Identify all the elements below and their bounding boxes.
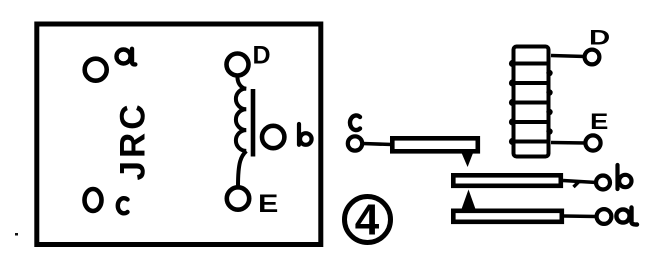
- svg-text:E: E: [258, 190, 278, 218]
- svg-text:4: 4: [355, 196, 380, 245]
- contact blade a: [453, 211, 562, 222]
- svg-text:D: D: [253, 42, 271, 70]
- wire D to coil: [237, 76, 246, 90]
- svg-text:JRC: JRC: [114, 101, 153, 180]
- contact point (up triangle): [461, 190, 476, 211]
- relay case outline: [37, 24, 321, 245]
- wire coil to E: [238, 151, 246, 186]
- wire coil to terminal D: [551, 56, 585, 57]
- stray ink speck: [15, 233, 18, 236]
- terminal D (case): [227, 54, 249, 76]
- contact blade b: [453, 175, 561, 186]
- terminal b (case): [262, 126, 284, 148]
- coil L (case inductor): [236, 89, 246, 151]
- terminal E (right): [585, 135, 600, 150]
- armature contact arrow (down): [461, 151, 475, 168]
- terminal c (case): [85, 189, 102, 211]
- wire coil to terminal E: [551, 141, 586, 145]
- label b (right): [618, 165, 632, 189]
- label C: [350, 115, 360, 130]
- label a (right): [616, 208, 637, 225]
- terminal C: [348, 136, 362, 150]
- label a (case): [117, 49, 136, 65]
- wire blade a to terminal a: [564, 214, 596, 218]
- svg-text:D: D: [589, 26, 610, 49]
- terminal D (right): [585, 50, 600, 65]
- coil winding bumps right: [546, 70, 552, 135]
- wire blade b to terminal b: [563, 181, 597, 188]
- label c (case): [118, 198, 128, 213]
- core bar: [251, 89, 256, 157]
- terminal E (case): [227, 187, 249, 209]
- terminal a (right): [597, 209, 612, 224]
- armature bar: [392, 138, 478, 151]
- terminal a (case): [85, 59, 107, 81]
- coil winding bumps left: [509, 60, 516, 145]
- label b (case): [299, 124, 312, 145]
- figure number circle: [345, 197, 391, 243]
- terminal b (right): [596, 176, 610, 190]
- relay coil (solenoid) body: [512, 47, 550, 157]
- svg-text:E: E: [590, 110, 608, 135]
- wire C to armature: [363, 144, 393, 145]
